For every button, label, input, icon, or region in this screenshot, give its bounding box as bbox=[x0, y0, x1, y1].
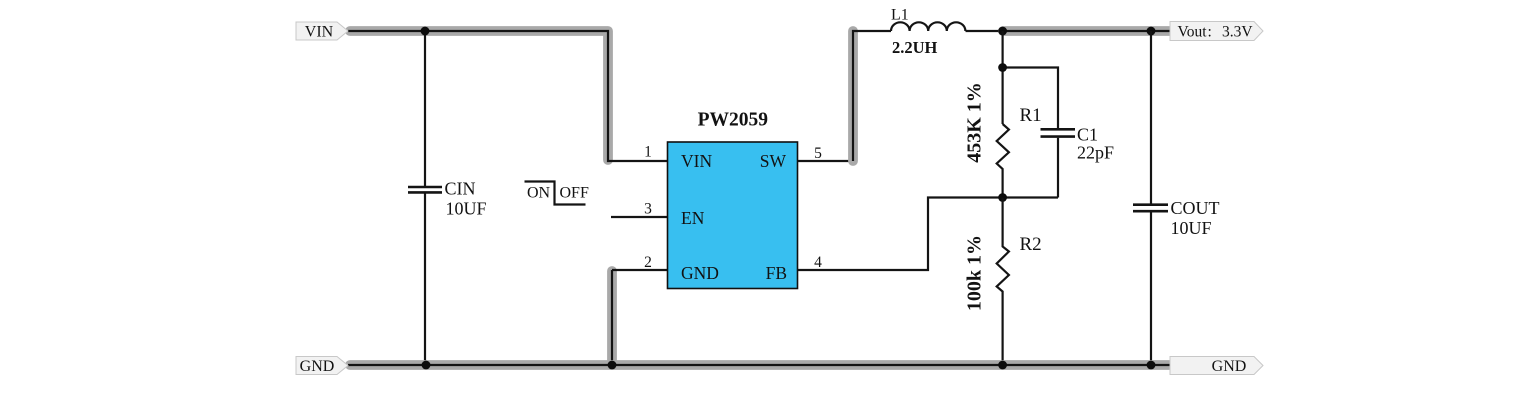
capacitor COUT bbox=[1133, 205, 1168, 212]
pin 3 stub wire (EN) bbox=[611, 216, 668, 218]
svg-text:FB: FB bbox=[766, 263, 787, 283]
junction node L1/R1 top bbox=[998, 27, 1007, 36]
pin 5 stub wire (SW) bbox=[798, 160, 855, 162]
wire SW riser core bbox=[853, 31, 891, 161]
svg-text:1: 1 bbox=[644, 144, 652, 161]
wire VIN rail gray sheath bbox=[350, 31, 608, 160]
junction node CIN bottom bbox=[422, 361, 431, 370]
svg-text:R1: R1 bbox=[1020, 105, 1042, 126]
net flag GND right bbox=[1170, 357, 1263, 376]
svg-text:ON: ON bbox=[527, 184, 551, 201]
svg-text:L1: L1 bbox=[891, 7, 909, 24]
svg-text:4: 4 bbox=[814, 254, 822, 271]
svg-text:COUT: COUT bbox=[1171, 198, 1220, 218]
wire C1 bottom bbox=[1057, 138, 1059, 198]
wire L1 to Vout node bbox=[966, 30, 1003, 32]
capacitor CIN bbox=[408, 187, 442, 192]
svg-text:GND: GND bbox=[681, 263, 719, 283]
svg-text:GND: GND bbox=[1212, 358, 1247, 375]
svg-text:VIN: VIN bbox=[305, 24, 334, 41]
junction node COUT top bbox=[1147, 27, 1156, 36]
wire R1 top branch bbox=[1003, 31, 1058, 128]
wire GND rail gray sheath bbox=[350, 360, 1172, 370]
svg-text:453K 1%: 453K 1% bbox=[964, 82, 986, 163]
junction node at VIN/CIN top bbox=[421, 27, 430, 36]
svg-text:3: 3 bbox=[644, 201, 652, 218]
svg-text:100k 1%: 100k 1% bbox=[964, 235, 986, 311]
net flag VIN bbox=[296, 22, 348, 41]
wire VIN rail core bbox=[348, 31, 668, 161]
net flag Vout 3.3V bbox=[1170, 22, 1263, 41]
wire GND riser gray sheath (pin 2 to rail) bbox=[607, 271, 617, 364]
wire FB net (pin 4 to divider) bbox=[798, 198, 1059, 271]
svg-text:22pF: 22pF bbox=[1077, 143, 1114, 163]
svg-text:R2: R2 bbox=[1020, 234, 1042, 255]
svg-text:10UF: 10UF bbox=[1171, 218, 1212, 238]
svg-text:EN: EN bbox=[681, 208, 705, 228]
svg-text:2.2UH: 2.2UH bbox=[892, 38, 938, 57]
wire SW riser gray sheath bbox=[848, 31, 858, 161]
junction node R1/R2/FB bbox=[998, 193, 1007, 202]
pin 2 stub wire bbox=[612, 269, 668, 271]
resistor R1 bbox=[997, 124, 1009, 198]
switch ON/OFF bbox=[525, 182, 589, 205]
svg-text:C1: C1 bbox=[1077, 125, 1098, 145]
wire GND rail core bbox=[348, 364, 1170, 366]
svg-text:2: 2 bbox=[644, 254, 652, 271]
capacitor C1 bbox=[1041, 129, 1076, 136]
resistor R2 bbox=[997, 198, 1009, 366]
wire GND riser core bbox=[611, 270, 613, 365]
svg-text:SW: SW bbox=[760, 151, 787, 171]
svg-text:GND: GND bbox=[300, 358, 335, 375]
net flag GND left bbox=[296, 357, 348, 376]
wire Vout rail core bbox=[1002, 30, 1172, 32]
svg-text:10UF: 10UF bbox=[446, 199, 487, 219]
junction node COUT bottom bbox=[1147, 361, 1156, 370]
svg-text:VIN: VIN bbox=[681, 151, 712, 171]
svg-text:5: 5 bbox=[814, 145, 822, 162]
svg-text:CIN: CIN bbox=[445, 179, 476, 199]
junction node IC GND bottom bbox=[608, 361, 617, 370]
svg-text:PW2059: PW2059 bbox=[698, 109, 769, 130]
IC U1 PW2059 body bbox=[668, 142, 798, 289]
wire COUT branch bbox=[1150, 31, 1152, 365]
svg-text:OFF: OFF bbox=[560, 184, 589, 201]
wire Vout rail gray sheath bbox=[1003, 26, 1172, 36]
junction node R2 bottom bbox=[998, 361, 1007, 370]
inductor L1 bbox=[891, 22, 965, 31]
junction node R1/C1 top bbox=[998, 63, 1007, 72]
wire CIN branch bbox=[424, 31, 426, 365]
